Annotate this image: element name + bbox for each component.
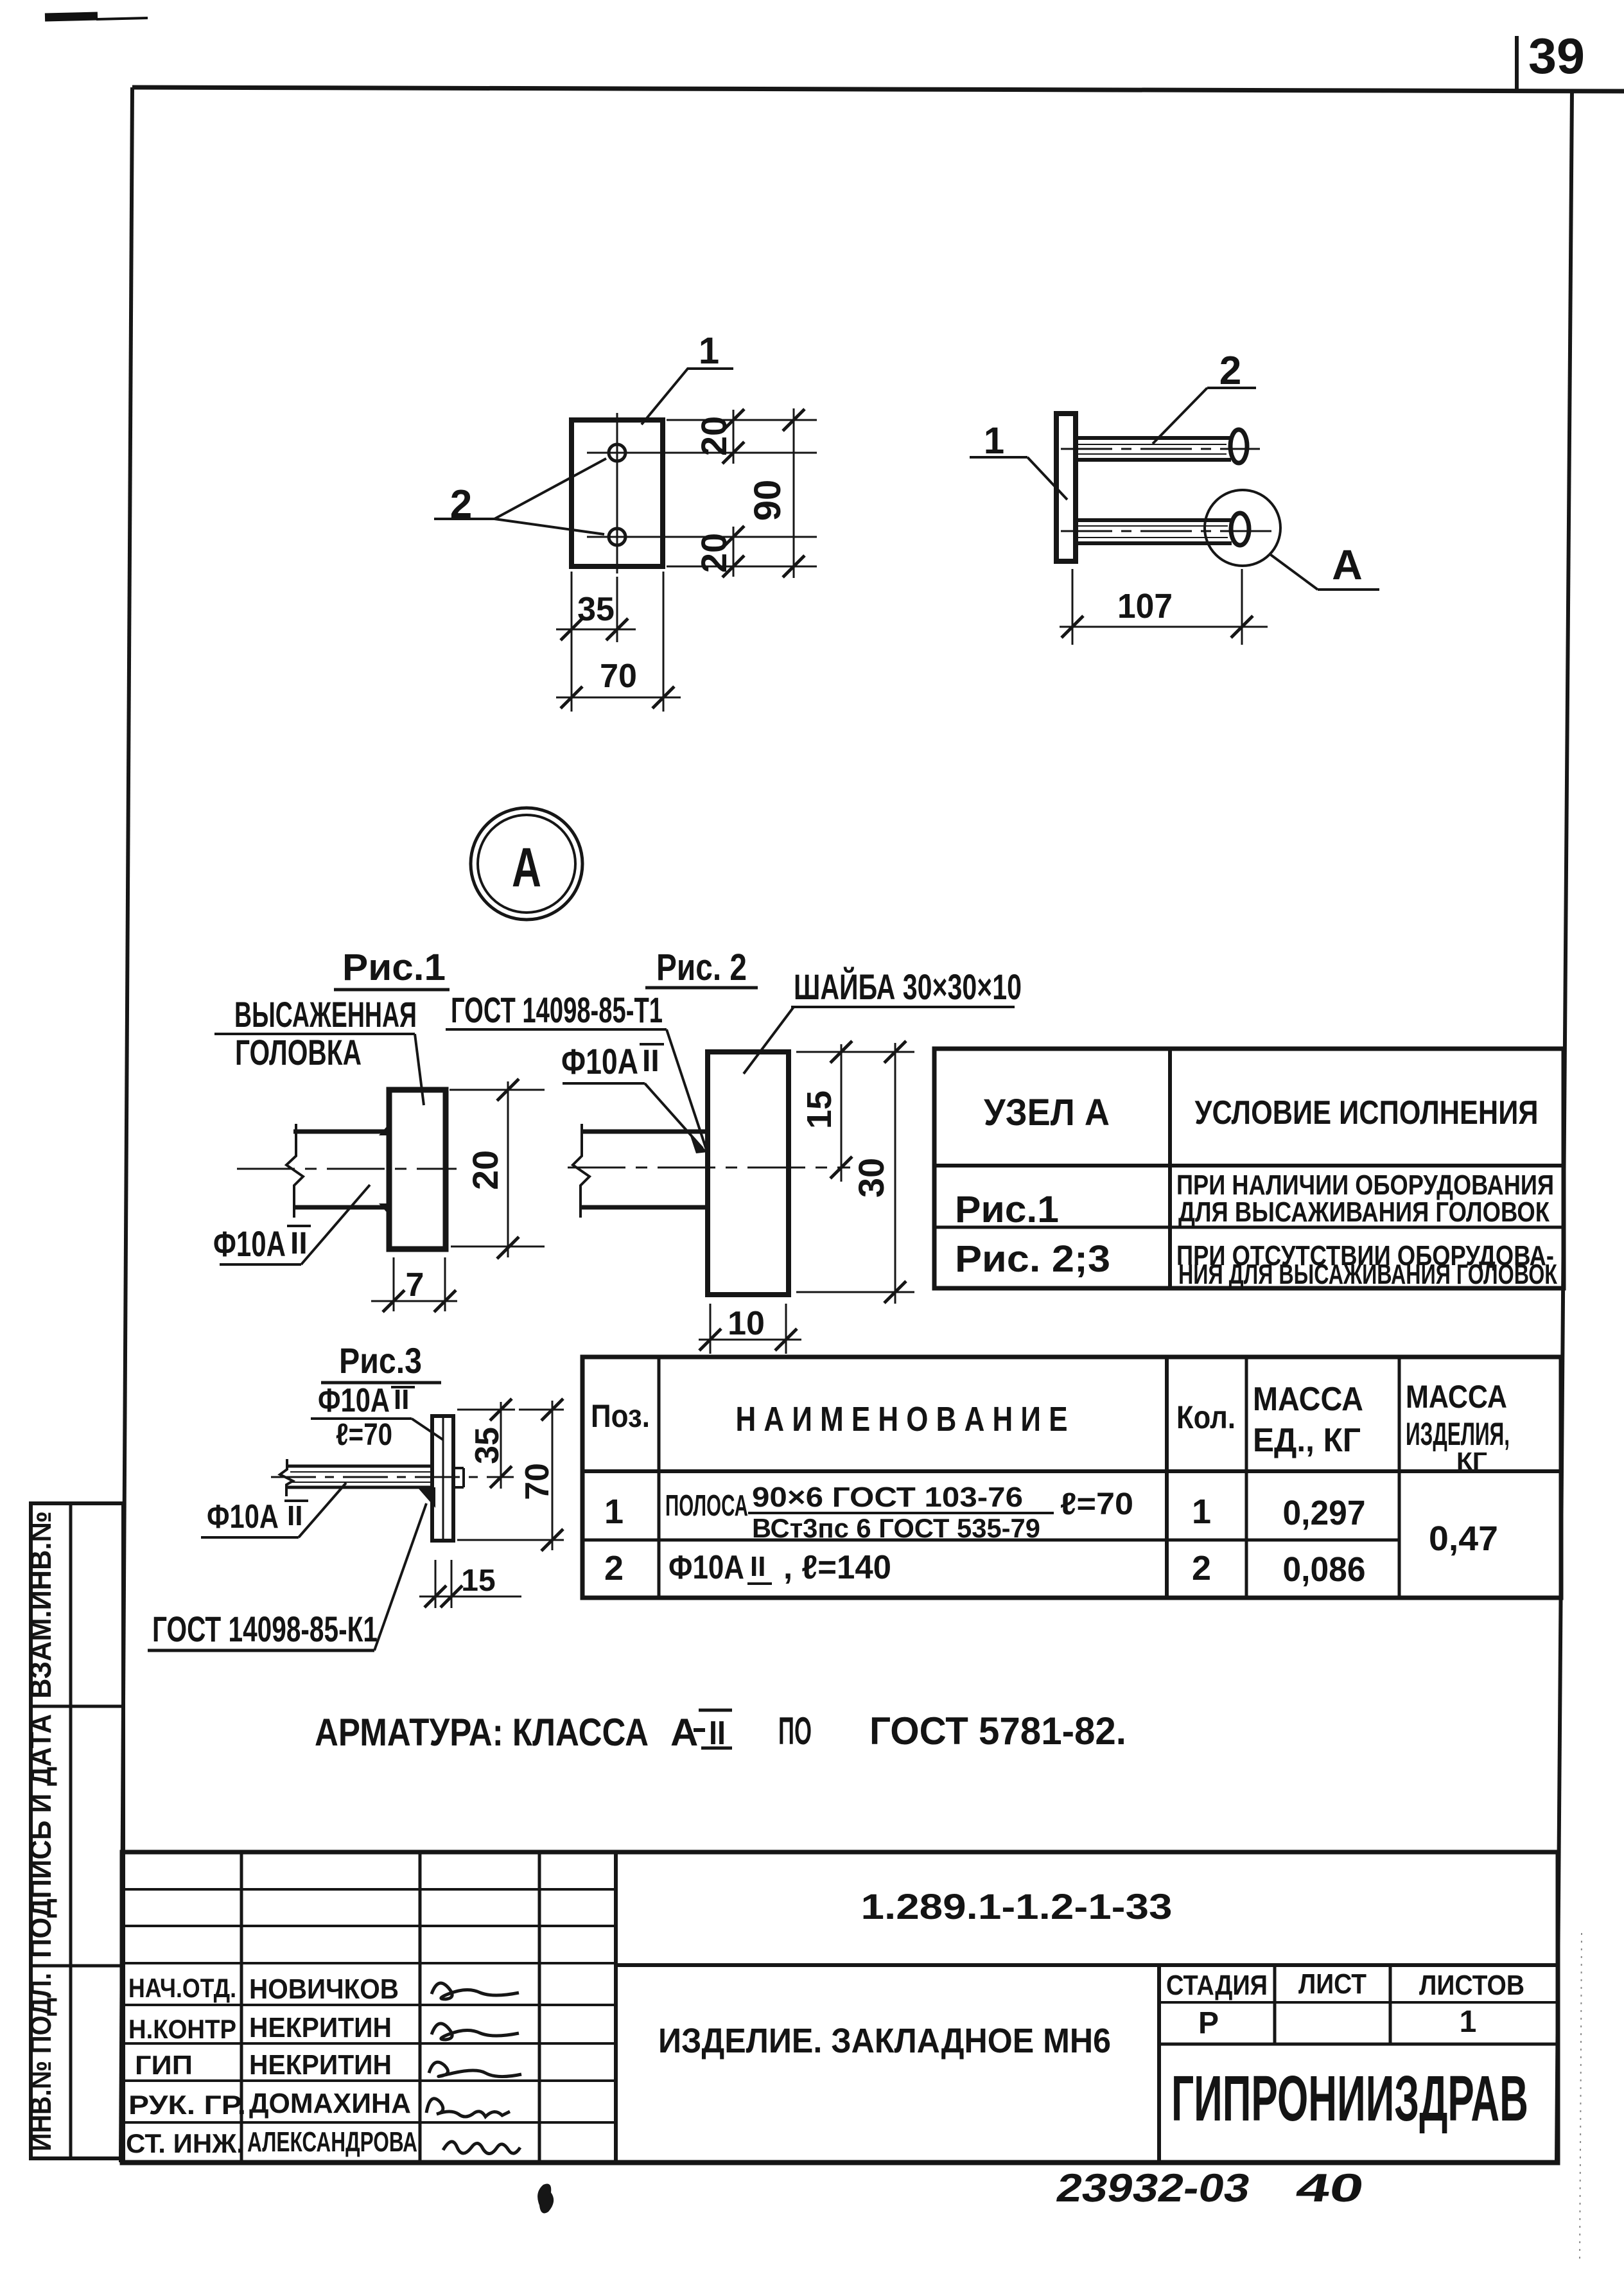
note Ф10АII Fig.2 with leader	[561, 1041, 703, 1148]
leader label A	[1271, 541, 1379, 590]
svg-text:ИЗДЕЛИЕ. ЗАКЛАДНОЕ МН6: ИЗДЕЛИЕ. ЗАКЛАДНОЕ МН6	[658, 2022, 1111, 2060]
svg-text:ШАЙБА 30×30×10: ШАЙБА 30×30×10	[794, 966, 1022, 1007]
svg-text:ЛИСТ: ЛИСТ	[1298, 1968, 1366, 2000]
svg-text:АЛЕКСАНДРОВА: АЛЕКСАНДРОВА	[247, 2126, 417, 2158]
rod 2 bottom	[1061, 520, 1278, 543]
svg-text:90×6 ГОСТ 103-76: 90×6 ГОСТ 103-76	[752, 1482, 1023, 1513]
svg-text:1: 1	[1192, 1492, 1211, 1531]
horizontal rows left part	[122, 1888, 616, 1891]
svg-text:0,297: 0,297	[1283, 1494, 1366, 1532]
svg-text:ГОСТ 14098-85-К1: ГОСТ 14098-85-К1	[152, 1609, 378, 1649]
svg-text:МАССА: МАССА	[1253, 1381, 1363, 1418]
svg-text:Ф10А: Ф10А	[207, 1498, 279, 1535]
svg-text:20: 20	[465, 1150, 505, 1190]
svg-text:Н.КОНТР: Н.КОНТР	[128, 2014, 236, 2044]
svg-text:II: II	[394, 1384, 409, 1415]
rod Fig.2	[581, 1132, 708, 1207]
dimension 107	[1060, 569, 1268, 645]
signatures	[432, 1983, 519, 1999]
svg-text:2: 2	[1192, 1549, 1211, 1587]
ink blot bottom center	[537, 2184, 554, 2214]
svg-text:Ф10А: Ф10А	[318, 1382, 390, 1419]
svg-text:, ℓ=140: , ℓ=140	[783, 1549, 891, 1586]
svg-text:ГОСТ 14098-85-Т1: ГОСТ 14098-85-Т1	[451, 990, 663, 1030]
svg-text:ЕД., КГ: ЕД., КГ	[1253, 1422, 1361, 1459]
svg-text:Рис.1: Рис.1	[955, 1189, 1059, 1230]
svg-text:УСЛОВИЕ ИСПОЛНЕНИЯ: УСЛОВИЕ ИСПОЛНЕНИЯ	[1195, 1094, 1539, 1132]
svg-text:II: II	[642, 1044, 659, 1078]
svg-text:90: 90	[747, 480, 789, 521]
svg-text:15: 15	[461, 1564, 495, 1598]
svg-text:70: 70	[519, 1463, 556, 1500]
svg-text:Р: Р	[1198, 2006, 1219, 2040]
title Рис.1	[334, 947, 450, 990]
svg-text:СТ. ИНЖ.: СТ. ИНЖ.	[126, 2128, 244, 2158]
svg-text:40: 40	[1293, 2165, 1367, 2210]
rod break mark Fig.2	[573, 1124, 589, 1218]
svg-text:ВЫСАЖЕННАЯ: ВЫСАЖЕННАЯ	[234, 994, 417, 1035]
svg-text:ГИП: ГИП	[135, 2050, 193, 2080]
svg-text:Рис. 2: Рис. 2	[656, 947, 747, 988]
label Ф10А II Fig.3 with leader	[201, 1483, 346, 1537]
rod break mark Fig.3	[280, 1459, 293, 1496]
svg-text:ПО: ПО	[778, 1710, 812, 1753]
svg-text:НАЧ.ОТД.: НАЧ.ОТД.	[128, 1973, 236, 2003]
title Рис.2	[645, 947, 758, 988]
svg-text:1: 1	[1460, 2005, 1477, 2039]
leader arrowhead at washer	[690, 1134, 708, 1153]
svg-text:35: 35	[469, 1427, 506, 1464]
svg-text:Рис.1: Рис.1	[342, 947, 446, 988]
weld mark K1 Fig.3	[417, 1487, 435, 1508]
svg-text:23932-03: 23932-03	[1053, 2165, 1253, 2210]
dimension 15 Fig.2	[796, 1041, 862, 1182]
plate 1 side view	[1056, 414, 1076, 561]
svg-text:КГ: КГ	[1456, 1448, 1487, 1475]
leader label 2 side view	[1153, 349, 1256, 444]
svg-text:1.289.1-1.2-1-33: 1.289.1-1.2-1-33	[861, 1886, 1173, 1927]
svg-text:ЛИСТОВ: ЛИСТОВ	[1419, 1970, 1524, 2001]
dimension 20 Fig.1	[450, 1079, 545, 1259]
svg-text:Кол.: Кол.	[1176, 1399, 1235, 1435]
svg-text:107: 107	[1117, 587, 1173, 625]
svg-text:15: 15	[800, 1090, 839, 1129]
svg-text:СТАДИЯ: СТАДИЯ	[1166, 1970, 1268, 2001]
svg-text:1: 1	[984, 420, 1004, 462]
svg-text:70: 70	[600, 658, 637, 695]
svg-text:ИЗДЕЛИЯ,: ИЗДЕЛИЯ,	[1406, 1416, 1510, 1452]
svg-text:НИЯ ДЛЯ ВЫСАЖИВАНИЯ ГОЛОВОК: НИЯ ДЛЯ ВЫСАЖИВАНИЯ ГОЛОВОК	[1178, 1259, 1557, 1290]
svg-text:Рис.3: Рис.3	[339, 1340, 422, 1381]
svg-text:20: 20	[694, 416, 734, 456]
svg-text:7: 7	[406, 1266, 424, 1304]
svg-text:1: 1	[604, 1492, 624, 1531]
svg-text:35: 35	[577, 591, 615, 628]
svg-text:МАССА: МАССА	[1406, 1379, 1507, 1415]
svg-text:39: 39	[1528, 28, 1585, 84]
svg-text:Поз.: Поз.	[591, 1398, 650, 1434]
svg-text:ИНВ.№ ПОДЛ.: ИНВ.№ ПОДЛ.	[24, 1973, 57, 2151]
corner registration mark top-left	[45, 16, 148, 19]
axis line Fig.3	[271, 1476, 514, 1478]
svg-text:II: II	[750, 1551, 765, 1582]
svg-text:ДОМАХИНА: ДОМАХИНА	[249, 2088, 411, 2119]
svg-text:ГОЛОВКА: ГОЛОВКА	[235, 1032, 362, 1072]
svg-text:Ф10А: Ф10А	[561, 1041, 638, 1081]
title block texts	[126, 1886, 1528, 2158]
svg-text:ДЛЯ ВЫСАЖИВАНИЯ ГОЛОВОК: ДЛЯ ВЫСАЖИВАНИЯ ГОЛОВОК	[1178, 1196, 1550, 1228]
svg-text:А: А	[670, 1711, 698, 1754]
dimension 90 right	[747, 408, 805, 578]
strip plate edge view Fig.3	[432, 1416, 453, 1541]
svg-text:II: II	[287, 1500, 302, 1532]
dimension 70 bottom	[556, 572, 681, 712]
svg-text:Рис. 2;3: Рис. 2;3	[955, 1238, 1110, 1280]
note ШАЙБА 30x30x10 with leader	[744, 966, 1022, 1074]
rod Fig.3	[286, 1466, 464, 1487]
svg-text:ГОСТ 5781-82.: ГОСТ 5781-82.	[869, 1710, 1126, 1753]
rod 2 top	[1061, 438, 1260, 460]
weld fillets Fig.1	[379, 1124, 389, 1135]
note Ф10АII l=70 with leader	[311, 1382, 443, 1452]
svg-text:0,47: 0,47	[1429, 1519, 1498, 1558]
note ВЫСАЖЕННАЯ ГОЛОВКА with leader	[214, 994, 424, 1105]
dimension 15 Fig.3	[419, 1560, 521, 1608]
faint fold line right margin	[1580, 1933, 1582, 2261]
hole top (rod 2 position)	[609, 444, 625, 461]
dimension 10 Fig.2	[699, 1304, 801, 1354]
axis line Fig.2	[568, 1167, 850, 1169]
rod Fig.1	[293, 1132, 389, 1207]
note ГОСТ 14098-85-Т1 with leader to Fig.2	[446, 990, 706, 1150]
page number 39 top-right	[1517, 28, 1585, 90]
svg-text:2: 2	[450, 482, 472, 527]
upset head of top rod	[1230, 430, 1247, 463]
detail circle A callout	[1205, 490, 1280, 566]
plate centerline vertical	[616, 413, 618, 573]
svg-text:НЕКРИТИН: НЕКРИТИН	[249, 2049, 392, 2081]
svg-text:30: 30	[851, 1158, 891, 1198]
rod break mark Fig.1	[286, 1124, 303, 1218]
leader label 1 (plate)	[642, 330, 733, 424]
dimension 7 Fig.1	[371, 1257, 457, 1312]
svg-text:РУК. ГР.: РУК. ГР.	[128, 2090, 246, 2120]
svg-text:ГИПРОНИИЗДРАВ: ГИПРОНИИЗДРАВ	[1171, 2063, 1528, 2135]
svg-text:II: II	[709, 1715, 726, 1752]
hole bottom (rod 2 position)	[609, 529, 625, 545]
dimension 35 bottom	[556, 572, 636, 712]
svg-text:Ф10А: Ф10А	[213, 1223, 286, 1264]
leader label 1 side view	[970, 420, 1067, 500]
svg-text:10: 10	[728, 1305, 765, 1342]
washer ШАЙБА rectangle	[708, 1052, 789, 1295]
СТАДИЯ/ЛИСТ/ЛИСТОВ grid	[1157, 1965, 1161, 2163]
document number cell separator	[616, 1963, 1558, 1967]
handwritten footer number	[1053, 2165, 1367, 2210]
svg-text:II: II	[290, 1227, 308, 1261]
svg-text:АРМАТУРА: КЛАССА: АРМАТУРА: КЛАССА	[315, 1711, 649, 1754]
svg-text:ВСт3пс 6 ГОСТ 535-79: ВСт3пс 6 ГОСТ 535-79	[752, 1513, 1040, 1543]
svg-text:0,086: 0,086	[1283, 1550, 1366, 1589]
svg-text:НЕКРИТИН: НЕКРИТИН	[249, 2012, 392, 2043]
svg-text:ℓ=70: ℓ=70	[336, 1418, 392, 1452]
svg-text:ВЗАМ.ИНВ.№: ВЗАМ.ИНВ.№	[24, 1511, 57, 1699]
svg-text:А: А	[1332, 541, 1363, 588]
title Рис.3	[321, 1340, 441, 1383]
svg-text:20: 20	[694, 533, 734, 573]
svg-text:2: 2	[1219, 349, 1241, 393]
svg-text:УЗЕЛ А: УЗЕЛ А	[984, 1092, 1110, 1133]
dimension 35 Fig.3	[457, 1399, 515, 1489]
note ГОСТ 14098-85-К1 with leader	[148, 1503, 426, 1650]
svg-text:1: 1	[699, 330, 719, 372]
vertical separators left signature part	[240, 1852, 243, 2163]
upset head rectangle Fig.1	[389, 1090, 446, 1249]
leader label 2 (holes)	[434, 459, 606, 534]
svg-text:ПОЛОСА: ПОЛОСА	[665, 1489, 748, 1522]
dimension 30 Fig.2	[796, 1041, 914, 1304]
upset head of bottom rod	[1231, 513, 1249, 545]
svg-text:Ф10А: Ф10А	[668, 1549, 744, 1586]
svg-text:А: А	[512, 837, 541, 898]
dimension 20 top right	[647, 409, 817, 464]
dimension 70 Fig.3	[457, 1399, 564, 1551]
label Ф10АII Fig.1 with leader	[213, 1185, 370, 1264]
svg-text:ПОДПИСЬ И ДАТА: ПОДПИСЬ И ДАТА	[24, 1714, 57, 1958]
plate 1 top view	[572, 420, 663, 566]
axis line Fig.1	[237, 1168, 457, 1170]
svg-text:ℓ=70: ℓ=70	[1060, 1487, 1133, 1521]
svg-text:НОВИЧКОВ: НОВИЧКОВ	[249, 1973, 399, 2005]
dimension 20 bottom right	[647, 526, 817, 577]
svg-text:2: 2	[604, 1549, 624, 1587]
svg-text:Н А И М Е Н О В А Н И Е: Н А И М Е Н О В А Н И Е	[736, 1400, 1068, 1439]
